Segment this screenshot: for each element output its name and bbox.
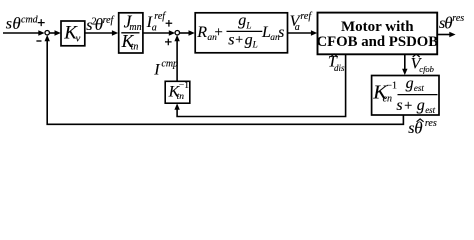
svg-text:tn: tn [131, 41, 139, 52]
sign − at summing junction S1 [36, 40, 41, 42]
block Ktn inverse [165, 81, 190, 103]
svg-text:L: L [252, 41, 258, 51]
sign + lower at summing junction S2 [165, 39, 172, 46]
svg-text:res: res [452, 13, 464, 24]
wire Jmn/Ktn to summing junction S2 [143, 30, 175, 35]
svg-text:en: en [383, 94, 392, 105]
wire Ran block to Motor block [288, 30, 318, 35]
svg-text:ref: ref [154, 11, 166, 22]
block Ran + gL/(s+gL) Lan s [195, 12, 287, 53]
svg-text:+: + [404, 98, 412, 114]
wire Icmp from Ktn inverse to summing junction S2 [174, 35, 179, 81]
label V̂cfob [411, 54, 434, 74]
label sθ^res [439, 13, 464, 33]
svg-text:R: R [196, 24, 207, 41]
summing junction S1 [45, 31, 49, 35]
svg-text:cmp: cmp [161, 58, 178, 69]
label s²θ^ref [86, 15, 114, 34]
wire input sθ^cmd to summing junction S1 [3, 30, 45, 35]
svg-text:−1: −1 [179, 81, 189, 91]
wire S1 to Kv [50, 30, 61, 35]
svg-text:θ: θ [444, 14, 452, 33]
label sθ̂^res [408, 118, 437, 137]
svg-text:v: v [76, 33, 81, 45]
wire Kv to Jmn/Ktn block [85, 30, 118, 35]
wire sθ̂^res feedback from Ken block to S1 and branch [45, 35, 404, 124]
svg-text:L: L [245, 22, 251, 32]
wire V̂cfob from Motor bottom to Ken block [402, 54, 407, 75]
svg-text:tn: tn [177, 92, 185, 102]
summing junction S2 [175, 31, 179, 35]
block Ken inverse gest/(s+gest) [372, 75, 439, 115]
svg-text:ref: ref [300, 11, 312, 22]
svg-text:−1: −1 [386, 80, 397, 91]
svg-text:est: est [414, 83, 424, 93]
svg-text:cfob: cfob [419, 64, 434, 74]
block Jmn/Ktn [119, 11, 143, 53]
sign + at summing junction S1 [38, 19, 45, 26]
svg-text:g: g [238, 12, 246, 29]
svg-text:+: + [235, 33, 243, 48]
label I^cmp [153, 58, 178, 78]
svg-text:CFOB and PSDOB: CFOB and PSDOB [316, 34, 438, 50]
label Ia^ref [146, 11, 167, 33]
svg-text:I: I [153, 61, 160, 78]
svg-text:ref: ref [103, 15, 115, 26]
wire Tdis from Motor bottom to Ktn inverse block [174, 54, 345, 117]
sign + upper at summing junction S2 [166, 20, 173, 27]
svg-text:θ: θ [414, 119, 422, 138]
svg-text:est: est [425, 105, 435, 115]
block Motor with CFOB and PSDOB [316, 13, 438, 55]
svg-text:res: res [425, 118, 437, 129]
label sθ^cmd [6, 14, 39, 33]
svg-text:s: s [396, 97, 402, 114]
svg-text:+: + [214, 25, 222, 41]
svg-text:cmd: cmd [21, 15, 39, 26]
svg-text:a: a [152, 22, 157, 33]
svg-text:g: g [406, 75, 414, 92]
svg-text:a: a [295, 22, 300, 33]
block Kv [61, 21, 85, 46]
svg-text:dis: dis [334, 63, 345, 73]
svg-text:s: s [228, 31, 234, 48]
wire Motor output sθ^res [437, 32, 455, 37]
wire S2 to Ran block [180, 30, 195, 35]
svg-text:g: g [245, 31, 253, 48]
svg-text:s: s [278, 24, 284, 41]
label T̂dis [328, 54, 345, 73]
svg-text:Motor with: Motor with [341, 19, 414, 35]
svg-text:θ: θ [12, 14, 20, 33]
svg-text:s: s [6, 16, 12, 33]
label Va^ref [290, 11, 313, 33]
svg-text:g: g [417, 97, 425, 114]
